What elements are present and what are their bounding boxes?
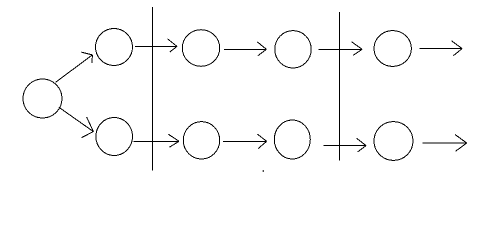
stray dot [263,170,264,171]
arrow diagonal up (start to top-1) [56,52,93,82]
node top-2 [182,30,219,67]
arrow top-2 to top-3 [224,42,266,56]
arrow top-4 out [419,41,462,56]
vertical line 1 [152,7,154,171]
node start (left circle) [23,79,62,118]
node top-3 [275,31,311,68]
arrow bottom-2 to bottom-3 [223,134,267,149]
arrow bottom-3 to bottom-4 [323,138,366,152]
arrow bottom-1 to bottom-2 [134,134,179,147]
arrow diagonal down (start to bottom-1) [59,107,94,137]
node bottom-1 [96,118,133,156]
arrow top-1 to top-2 [135,39,177,52]
node top-4 [374,31,411,67]
node bottom-2 [183,122,219,159]
node top-1 [96,29,133,66]
node bottom-3 [274,120,310,159]
node bottom-4 [374,122,413,161]
arrow bottom-4 out [422,135,466,152]
vertical line 2 [339,12,341,161]
arrow top-3 to top-4 [319,42,363,56]
